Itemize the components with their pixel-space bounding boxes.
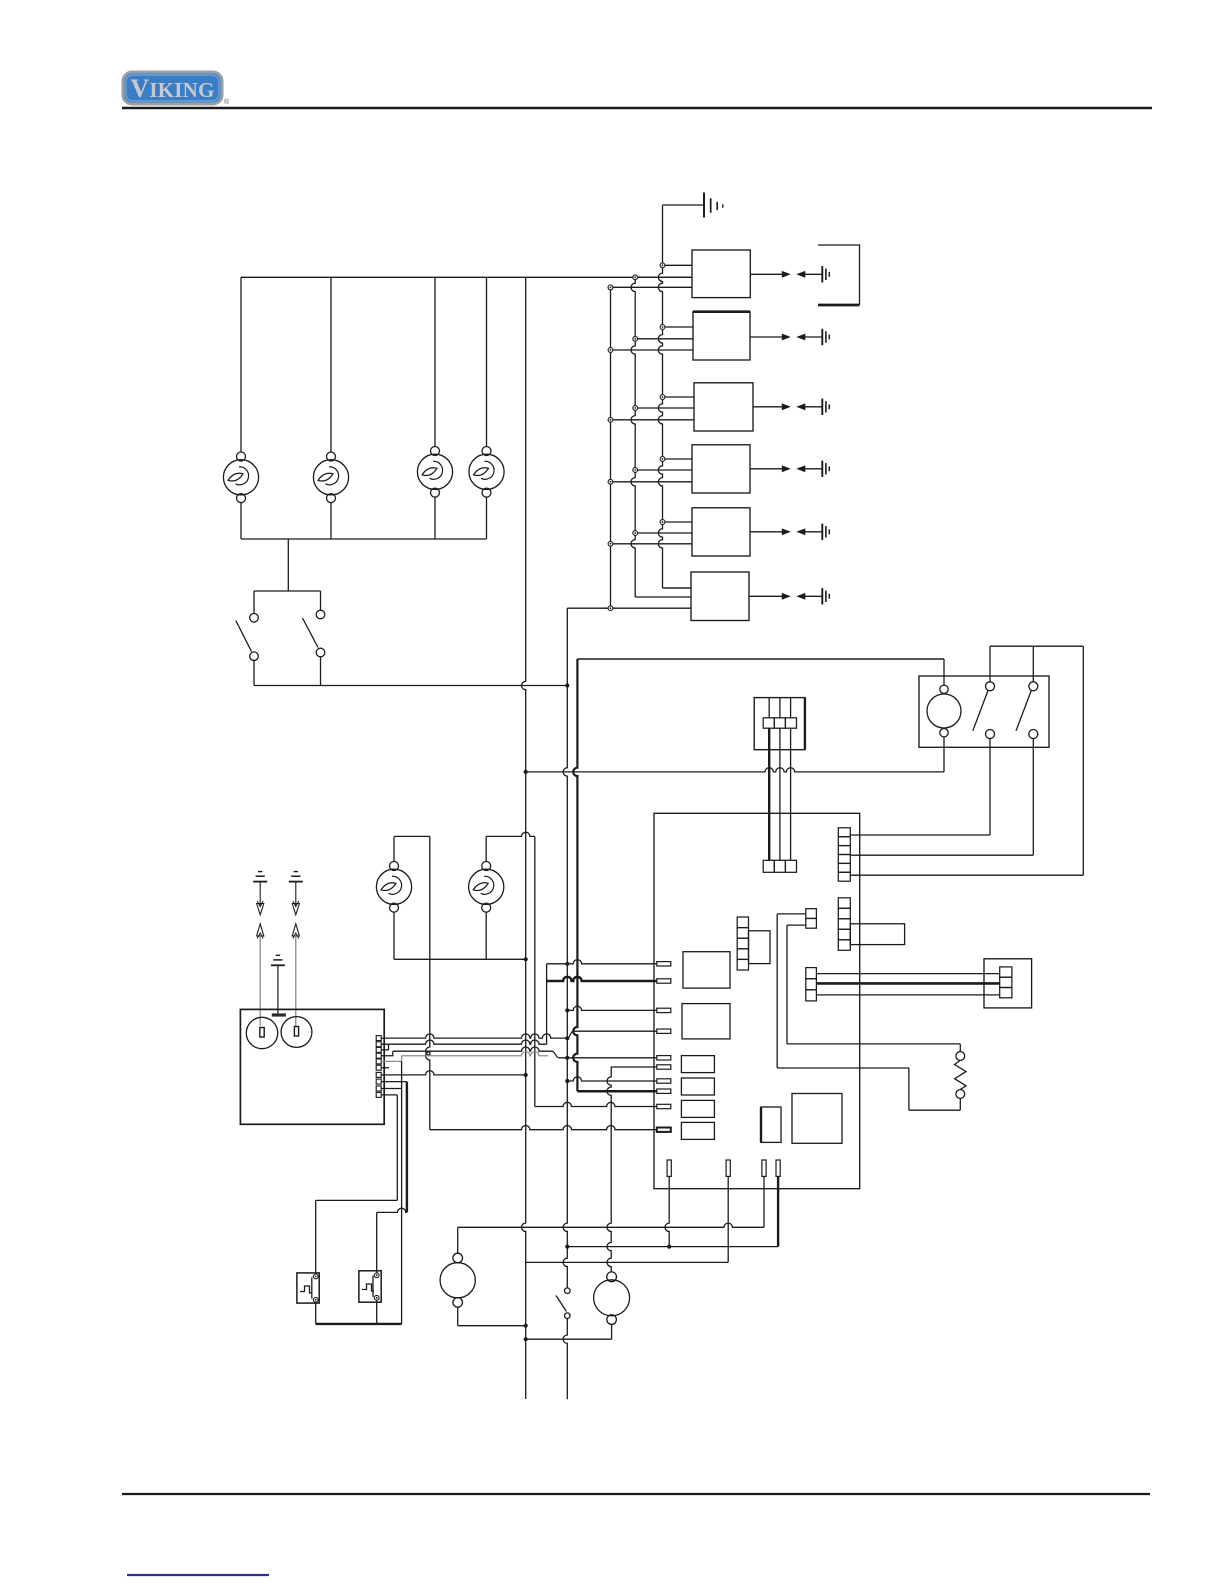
spark ignition box 3 with spark-gap arrows and ground: [608, 383, 829, 431]
terminal box1 pin3 bus top: [608, 285, 613, 611]
wire igniter bus: [394, 958, 526, 960]
thermal limit switch 1: [297, 1273, 319, 1303]
wire module pin4 run: [381, 1047, 552, 1056]
wire main vertical L1 (x=525.7): [522, 277, 528, 1399]
module bushing 2: [281, 1017, 312, 1048]
wire board pin7 feed: [567, 1077, 657, 1081]
wire module pin6 stub: [381, 1067, 389, 1069]
wire box1 pin3 feed: [611, 286, 693, 288]
wire relay sw2 out: [850, 739, 1033, 856]
relay box DSI module: [919, 676, 1049, 747]
bracket burner-box ground enclosure: [818, 245, 860, 305]
relay K5 on board: [681, 1100, 714, 1117]
relay K3 on board: [681, 1056, 714, 1073]
wire module pin7 run: [381, 1071, 526, 1075]
wire block top: [816, 973, 999, 975]
wire switch bus: [254, 683, 569, 687]
wire plug harness: [769, 728, 790, 860]
resistor R1: [955, 1052, 966, 1099]
wire switch stub: [287, 539, 289, 591]
wire coil top: [943, 659, 945, 685]
wire relay switch tops: [990, 646, 1083, 682]
wire thick feeder (x=577.4): [573, 659, 657, 1091]
igniter connector block: [984, 959, 1032, 1008]
spark ignition box 6 with spark-gap arrows and ground: [663, 572, 830, 621]
wire module pin5 run gray: [381, 1052, 548, 1062]
wire resistor top run: [787, 925, 960, 1052]
wire board pin1 drop: [665, 1176, 669, 1246]
connector J6 5-cell: [838, 898, 904, 951]
wire board pin2 drop: [526, 1176, 729, 1262]
ground electrode assembly: [289, 872, 303, 1026]
wire relay sw1 out: [850, 739, 990, 836]
wire relay coil top feeder: [577, 658, 944, 660]
wire riser x546: [546, 964, 548, 1044]
wire riser to switch bus: [566, 608, 568, 685]
double burner switch: [236, 591, 325, 686]
oven igniter left: [376, 836, 429, 959]
wire board pin4 drop thick: [777, 1176, 779, 1246]
module bushing 1: [246, 1017, 277, 1048]
surface burner igniter 4: [469, 277, 504, 539]
wire module pin8 run: [377, 1082, 407, 1273]
wire module pin1 run: [381, 1034, 567, 1038]
wire bottom run B: [567, 1245, 778, 1249]
wire coil bottom run: [526, 737, 944, 772]
wire module pin2 run: [381, 1040, 546, 1044]
wire main vertical N (x=567.3): [563, 686, 569, 1289]
wire igniter left drop: [426, 836, 430, 1129]
connector J3 2-cell: [806, 909, 817, 929]
connector plug P1: [754, 698, 805, 750]
wire board pin3 feed: [567, 1006, 657, 1010]
ground chassis top: [663, 193, 723, 218]
wire board pin6 feed: [611, 1066, 657, 1068]
wire board pin9 feed: [535, 1102, 657, 1106]
wire bottom run A: [458, 1223, 764, 1227]
bake motor: [440, 1227, 526, 1325]
connector J5 6-cell: [838, 828, 850, 881]
wire block bottom: [816, 994, 999, 996]
thermal limit switch 2: [359, 1271, 381, 1302]
wire spark bus B (x=635.2): [631, 277, 691, 597]
component U2 on board: [761, 1107, 781, 1142]
convection fan motor: [526, 1272, 630, 1339]
spark module box: [240, 1009, 384, 1124]
wire board pin1 feed: [547, 960, 657, 964]
wire spark bus C (x=610.5): [610, 287, 612, 608]
wire module pin9 run: [316, 1061, 402, 1324]
wire module pin10 run: [316, 1095, 398, 1274]
relay K2 on board: [682, 1004, 730, 1039]
wire resistor bottom run: [777, 914, 960, 1110]
relay K4 on board: [681, 1078, 714, 1095]
spark ignition box 2 with spark-gap arrows and ground: [608, 312, 829, 360]
board left pin row: [657, 962, 671, 1132]
ground electrode mid: [271, 955, 286, 1016]
svg-text:®: ®: [224, 98, 230, 106]
spark ignition box 4 with spark-gap arrows and ground: [608, 445, 829, 493]
surface burner igniter 2: [313, 277, 348, 539]
wire spark bus A (x=662.5): [658, 205, 691, 588]
ground electrode assembly: [253, 872, 267, 1026]
spark ignition box 5 with spark-gap arrows and ground: [608, 508, 829, 556]
surface burner igniter 3: [417, 277, 452, 539]
relay K1 on board: [683, 952, 730, 988]
surface burner igniter 1: [223, 277, 258, 539]
wire board pin4 feed: [567, 1031, 657, 1038]
wire surface top bus: [241, 276, 692, 278]
door switch: [556, 1288, 570, 1399]
Viking logo: [123, 72, 230, 106]
wire relay right loop: [850, 646, 1083, 875]
wire board pin5 feed: [552, 1051, 657, 1058]
wire block mid thick: [816, 982, 999, 985]
component U3 on board: [792, 1094, 842, 1144]
wire to box6 pin3: [567, 607, 691, 609]
connector board header J1: [763, 860, 796, 872]
wire pin6 to fan motor: [607, 1067, 611, 1272]
board bottom pin row: [667, 1160, 780, 1176]
module pin row: [376, 1036, 381, 1098]
spark ignition box 1 with spark-gap arrows and ground: [608, 250, 829, 298]
svg-text:VIKING: VIKING: [130, 74, 214, 103]
wire board pin3 drop: [763, 1176, 765, 1227]
header rule: [122, 107, 1152, 110]
wire surface bottom bus: [241, 538, 487, 540]
oven igniter right: [469, 832, 535, 959]
connector J4 3-cell: [806, 968, 817, 1001]
wire module pin3 jog: [381, 1044, 388, 1050]
wire igniter right drop: [534, 836, 536, 1106]
wire board pin2 feed thick: [547, 977, 657, 981]
control board outline: [654, 813, 860, 1188]
footer rule: [122, 1493, 1150, 1495]
relay K6 on board: [681, 1122, 714, 1139]
wire board pin10 feed: [430, 1126, 657, 1130]
footer blue link line: [127, 1574, 269, 1576]
connector J2 5-cell: [737, 917, 770, 970]
